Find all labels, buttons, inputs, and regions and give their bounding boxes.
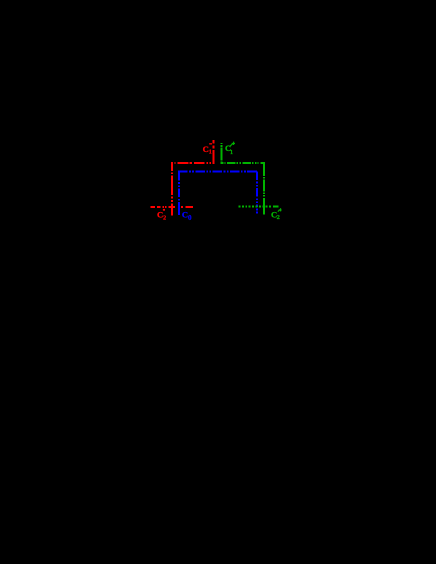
- arrow of C1-arrow: [229, 142, 235, 147]
- svg-text:1: 1: [209, 150, 212, 156]
- label C1' (red, top left of center): [203, 143, 212, 156]
- green axis final dash: [273, 205, 279, 207]
- contour C0 blue: left leg: [178, 172, 258, 215]
- contour C1' red: top-center vertical: [150, 140, 214, 215]
- label C0 (blue, bottom left): [182, 210, 192, 222]
- blue top horizontal: [178, 171, 258, 173]
- green top horizontal: [221, 162, 266, 164]
- blue tick: [178, 204, 180, 215]
- red axis segment C2' (explicit dashes): [150, 206, 155, 208]
- svg-text:2: 2: [163, 215, 166, 222]
- blue right leg: [256, 172, 258, 214]
- svg-text:0: 0: [188, 214, 192, 222]
- red tick at axis: [171, 205, 173, 215]
- contour C1-arrow green: top-center vertical: [221, 143, 279, 215]
- arrow of C2-arrow: [278, 208, 282, 211]
- label C2' (red, bottom left): [157, 209, 166, 222]
- label C1-arrow (green, top right of center): [225, 143, 233, 156]
- label C2-arrow (green, bottom right): [271, 209, 280, 221]
- svg-text:2: 2: [277, 214, 280, 221]
- red top horizontal: [171, 162, 215, 164]
- svg-text:1: 1: [230, 150, 233, 156]
- green tick at axis: [263, 203, 265, 215]
- red left leg: [171, 163, 173, 215]
- green right leg: [263, 163, 265, 215]
- green axis segment C2-arrow (dotted): [239, 205, 272, 207]
